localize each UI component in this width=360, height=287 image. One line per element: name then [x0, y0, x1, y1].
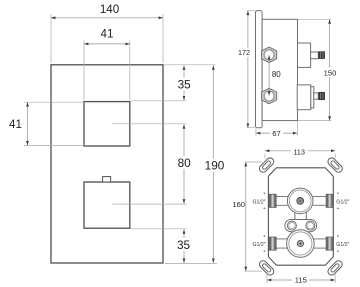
- upper cartridge block: [298, 43, 311, 67]
- mounting box octagon: [268, 168, 333, 265]
- svg-text:41: 41: [101, 28, 114, 41]
- svg-text:G1/2″: G1/2″: [253, 199, 266, 205]
- mounting ear bottom-right: [326, 259, 343, 276]
- dimension 35 bottom: [183, 229, 185, 263]
- port G1/2 bottom-left: [269, 237, 276, 250]
- svg-text:80: 80: [272, 70, 281, 79]
- upper knurled end: [319, 52, 325, 59]
- dimension 150: [298, 18, 331, 20]
- lower stem: [314, 93, 318, 99]
- front view faceplate: [51, 65, 163, 263]
- dimension 160: [245, 161, 262, 163]
- svg-text:172: 172: [238, 48, 250, 57]
- dimension 67: [255, 129, 257, 136]
- dimension 172: [247, 10, 255, 12]
- svg-text:160: 160: [232, 200, 245, 209]
- bottom pipe left: [276, 238, 287, 240]
- svg-text:190: 190: [205, 158, 225, 172]
- top valve circle: [287, 188, 313, 214]
- upper stem: [311, 52, 319, 59]
- top valve center dot: [297, 198, 304, 205]
- lower hex inlet nut: [262, 88, 277, 104]
- manifold port circle left: [287, 221, 296, 230]
- bottom pipe right: [314, 238, 326, 240]
- bottom square handle: [84, 182, 130, 228]
- extension lines right side: [131, 100, 187, 102]
- svg-text:115: 115: [295, 276, 307, 285]
- svg-text:41: 41: [9, 118, 22, 131]
- dimension 140: [50, 14, 52, 63]
- svg-text:140: 140: [100, 3, 119, 16]
- lower cartridge block: [297, 85, 311, 110]
- dimension 80 side view: [268, 55, 270, 95]
- bottom valve screw: [297, 240, 303, 246]
- port tick marks left top: [263, 193, 265, 195]
- svg-text:80: 80: [178, 156, 192, 170]
- dimension 113: [264, 154, 266, 159]
- svg-text:150: 150: [324, 69, 337, 78]
- dimension 115: [266, 274, 268, 284]
- upper hex inlet nut: [262, 47, 277, 63]
- manifold capsule: [285, 220, 317, 232]
- port tick marks right top: [337, 193, 339, 195]
- port G1/2 bottom-right: [326, 237, 333, 250]
- svg-text:G1/2″: G1/2″: [253, 242, 266, 248]
- wall plate side view: [256, 11, 263, 128]
- neck top valve to manifold: [295, 211, 306, 221]
- bottom valve circle: [287, 230, 315, 258]
- port tick marks right bottom: [337, 235, 339, 237]
- dimension 80 right: [183, 124, 185, 203]
- svg-text:G1/2″: G1/2″: [336, 242, 349, 248]
- svg-text:35: 35: [178, 78, 192, 92]
- dimension 41 left: [24, 101, 84, 103]
- port G1/2 top-left: [269, 194, 276, 207]
- port G1/2 top-right: [326, 194, 333, 207]
- svg-text:113: 113: [293, 147, 305, 156]
- valve body side view: [262, 19, 297, 120]
- top square control plate: [84, 102, 130, 146]
- mounting ear top-left: [258, 156, 275, 173]
- port tick marks left bottom: [263, 235, 265, 237]
- svg-text:67: 67: [272, 129, 280, 138]
- manifold port circle right: [306, 221, 315, 230]
- mounting ear top-right: [326, 156, 343, 173]
- top pipe right: [313, 196, 326, 198]
- dimension 41 top: [83, 41, 85, 101]
- svg-text:35: 35: [177, 238, 191, 252]
- handle tab: [103, 177, 111, 182]
- top pipe left: [276, 196, 287, 198]
- dimension 35 top: [183, 66, 185, 101]
- mounting ear bottom-left: [258, 259, 275, 276]
- svg-text:G1/2″: G1/2″: [336, 199, 349, 205]
- lower knurled end: [319, 92, 325, 99]
- lower cartridge flange: [311, 87, 314, 108]
- dimension 190: [212, 66, 214, 263]
